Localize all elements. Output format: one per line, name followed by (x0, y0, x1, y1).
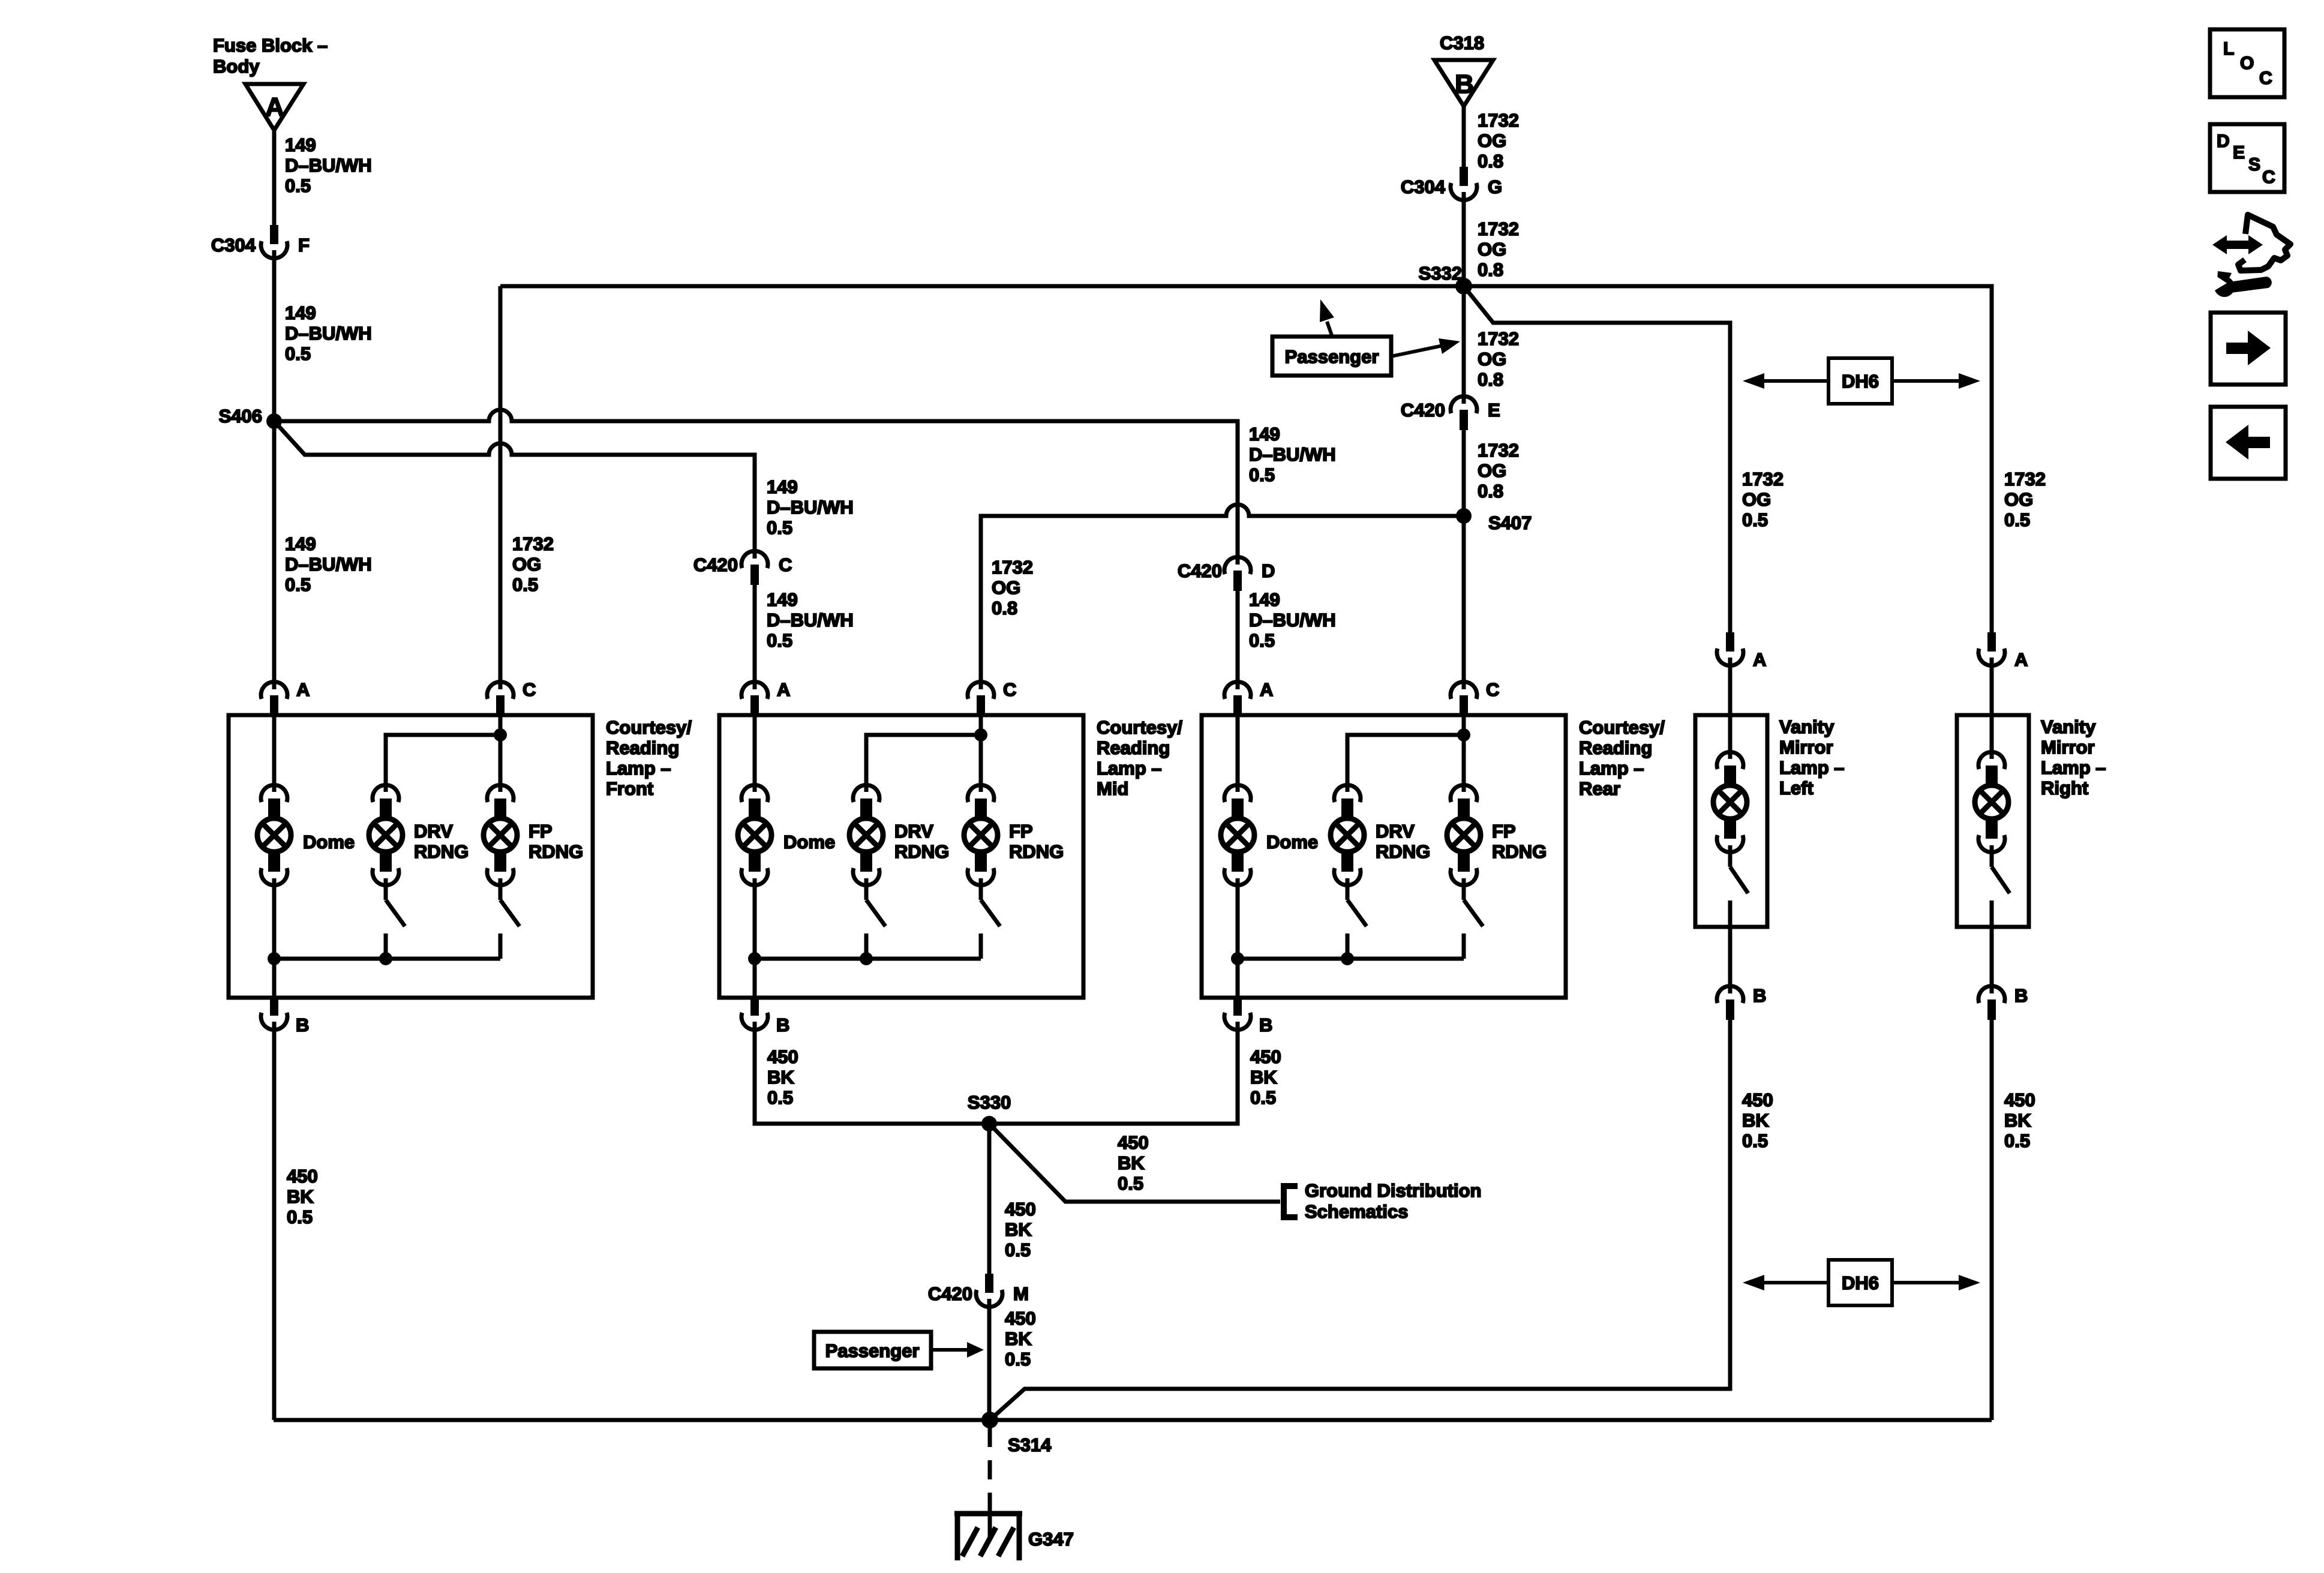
lamp FP RDNG (front) (484, 785, 583, 885)
ground G347 (954, 1506, 1074, 1560)
svg-text:BK: BK (1005, 1219, 1032, 1240)
wire 1732 OG: S407 left to mid lamp pin C (hops wire at x=2063) (981, 505, 1464, 680)
svg-text:A: A (2014, 649, 2028, 670)
svg-text:BK: BK (287, 1186, 314, 1207)
svg-text:Passenger: Passenger (1285, 346, 1379, 367)
connector pin B (rear lamp) (1224, 996, 1272, 1035)
svg-text:Lamp –: Lamp – (1779, 757, 1845, 778)
lamp: vanity mirror Left (1713, 752, 1747, 852)
svg-text:A: A (1753, 649, 1766, 670)
switch: FP reading lamp (981, 886, 1000, 959)
svg-text:F: F (298, 235, 310, 256)
svg-text:D–BU/WH: D–BU/WH (285, 155, 372, 176)
wire: box to pin B (1990, 927, 1994, 986)
svg-text:O: O (2240, 53, 2254, 73)
svg-text:450: 450 (1118, 1132, 1149, 1153)
svg-text:1732: 1732 (1478, 218, 1519, 239)
svg-text:Lamp –: Lamp – (1097, 758, 1162, 779)
wire: box to pin B (1728, 927, 1733, 986)
connector pin C (front lamp) (487, 679, 536, 716)
connector C420 pin M (928, 1274, 1029, 1308)
svg-text:0.5: 0.5 (1742, 509, 1768, 530)
wire label 450 BK 0.5 (1118, 1132, 1149, 1194)
vanity mirror lamp box Left (1695, 715, 1767, 927)
wire: internal link to DRV lamp (866, 735, 981, 784)
wire: internal ground bus (755, 957, 981, 961)
svg-text:D–BU/WH: D–BU/WH (767, 610, 854, 631)
harness reference DH6 (upper) (1743, 358, 1980, 404)
wire label 1732 OG 0.8 (1478, 328, 1519, 390)
svg-text:DH6: DH6 (1842, 371, 1879, 392)
lamp DRV RDNG (rear) (1331, 785, 1430, 885)
wire: pin A to dome lamp (1236, 715, 1240, 784)
svg-text:A: A (1260, 679, 1273, 700)
wire: dome lamp to ground bus (1236, 886, 1240, 959)
svg-text:OG: OG (2004, 489, 2033, 510)
label Vanity Mirror Lamp - Right (2041, 716, 2106, 798)
wire: pin C to internal node (979, 715, 983, 735)
lamp FP RDNG (mid) (964, 785, 1064, 885)
svg-text:C420: C420 (693, 554, 738, 575)
wire label 450 BK 0.5 (1005, 1199, 1036, 1260)
node: DRV/ground junction (860, 952, 873, 965)
svg-text:S332: S332 (1419, 263, 1462, 284)
courtesy/reading lamp box mid (719, 715, 1083, 998)
label Courtesy/Reading Lamp - Rear (1579, 717, 1665, 799)
wire label 1732 OG 0.8 (992, 557, 1033, 619)
callout box Passenger (lower) (814, 1332, 931, 1368)
wire 1732 OG: long bus from x=834 through S332 to right vanity drop (500, 286, 1992, 632)
svg-text:149: 149 (1249, 589, 1280, 610)
svg-text:D: D (1262, 560, 1275, 581)
lamp Dome (rear) (1221, 785, 1318, 885)
svg-text:G: G (1488, 176, 1502, 197)
wire 1732 OG: C304 G to splice S332 (1462, 199, 1466, 286)
wire: pin A into vanity lamp box (1990, 666, 1994, 752)
svg-text:C: C (779, 554, 792, 575)
switch: vanity lamp (1730, 853, 1748, 927)
switch: vanity lamp (1992, 853, 2010, 927)
svg-text:A: A (265, 92, 284, 122)
svg-text:C318: C318 (1440, 32, 1484, 53)
svg-text:D–BU/WH: D–BU/WH (1249, 444, 1336, 465)
svg-text:E: E (1488, 400, 1500, 421)
svg-text:0.8: 0.8 (1478, 151, 1503, 172)
wire: node to FP lamp (499, 735, 503, 784)
svg-text:149: 149 (285, 533, 316, 554)
svg-text:B: B (776, 1014, 789, 1035)
svg-text:FP: FP (529, 821, 553, 842)
wire 149 D-BU/WH: S406 down to front lamp pin A (272, 421, 277, 680)
wire label 1732 OG 0.8 (1478, 110, 1519, 172)
wire label 149 D-BU/WH 0.5 (above C420 D) (1249, 424, 1336, 485)
wire label 149 D-BU/WH 0.5 (below C420 D) (1249, 589, 1336, 651)
wire label 149 D-BU/WH 0.5 (285, 533, 372, 595)
svg-text:C: C (1003, 679, 1016, 700)
switch: DRV reading lamp (386, 886, 405, 959)
svg-text:C: C (2262, 167, 2275, 187)
svg-text:Mirror: Mirror (2041, 737, 2095, 758)
svg-text:RDNG: RDNG (1009, 841, 1064, 862)
svg-text:DRV: DRV (414, 821, 453, 842)
lamp DRV RDNG (front) (369, 785, 469, 885)
wire 1732 OG: S332 to left vanity drop (1464, 286, 1730, 632)
svg-text:Left: Left (1779, 778, 1813, 798)
connector C420 pin E (1401, 395, 1500, 430)
svg-text:D–BU/WH: D–BU/WH (1249, 610, 1336, 631)
lamp: vanity mirror Right (1975, 752, 2008, 852)
svg-text:OG: OG (1478, 349, 1506, 370)
wire label 450 BK 0.5 (right vanity) (2004, 1089, 2035, 1151)
wire: bus down to pin B (753, 959, 757, 998)
svg-text:149: 149 (1249, 424, 1280, 445)
label Courtesy/Reading Lamp - Front (606, 717, 692, 799)
svg-text:1732: 1732 (1478, 328, 1519, 349)
wire label 1732 OG 0.8 (1478, 440, 1519, 502)
wire: bus down to pin B (272, 959, 277, 998)
svg-text:B: B (1753, 985, 1766, 1006)
wire label 450 BK 0.5 (mid) (767, 1046, 798, 1108)
wire label 149 D-BU/WH 0.5 (above C420 C) (767, 476, 854, 538)
wire 149 D-BU/WH: C420 D to rear lamp pin A (1236, 591, 1240, 680)
wire 1732 OG: C318 to C304 G (1462, 104, 1466, 167)
switch: DRV reading lamp (1347, 886, 1367, 959)
svg-text:149: 149 (285, 302, 316, 323)
svg-text:Vanity: Vanity (1779, 716, 1834, 737)
connector pin B (vanity Right) (1978, 984, 2028, 1020)
svg-text:C: C (2259, 68, 2272, 88)
wire: pin C to internal node (1462, 715, 1466, 735)
callout arrow to S332 bus (1320, 299, 1334, 337)
svg-text:0.5: 0.5 (1118, 1173, 1143, 1194)
wire: bus down to pin B (1236, 959, 1240, 998)
svg-text:450: 450 (1005, 1199, 1036, 1220)
svg-text:DH6: DH6 (1842, 1272, 1879, 1293)
connector C304 pin G (1401, 167, 1502, 201)
switch: FP reading lamp (1464, 886, 1483, 959)
wire 149 D-BU/WH: C304 F to splice S406 (272, 257, 277, 421)
svg-text:0.8: 0.8 (992, 598, 1017, 619)
svg-text:C304: C304 (211, 235, 256, 256)
svg-text:BK: BK (767, 1067, 794, 1088)
svg-text:0.5: 0.5 (2004, 509, 2030, 530)
callout arrow to 1732 OG wire (1391, 338, 1460, 356)
svg-text:149: 149 (767, 476, 798, 497)
wire 1732 OG: S332 to C420 E (1462, 286, 1466, 395)
wire: internal link to DRV lamp (1347, 735, 1464, 784)
node: reading lamp feed junction (494, 728, 507, 742)
svg-text:C420: C420 (1401, 400, 1445, 421)
node: reading lamp feed junction (974, 728, 987, 742)
wire 450 BK: vanity lamp B down (1728, 1019, 1733, 1389)
legend icon LOC (2210, 29, 2284, 97)
wire label 450 BK 0.5 (1005, 1308, 1036, 1370)
svg-text:OG: OG (992, 577, 1020, 598)
wire label 450 BK 0.5 (rear) (1250, 1046, 1281, 1108)
legend icon adjust (hand with wrench) (2211, 215, 2290, 297)
svg-text:S330: S330 (968, 1092, 1011, 1113)
svg-text:S314: S314 (1008, 1434, 1052, 1455)
svg-text:C420: C420 (1178, 560, 1222, 581)
svg-text:Reading: Reading (1097, 737, 1170, 758)
wire 149 D-BU/WH: C420 C to mid lamp pin A (753, 585, 757, 680)
harness reference DH6 (lower) (1743, 1260, 1980, 1305)
svg-text:A: A (777, 679, 790, 700)
wire 149 D-BU/WH: fuse block A to C304 F (272, 128, 277, 225)
wire: internal ground bus (274, 957, 500, 961)
splice S314 (981, 1412, 1052, 1455)
svg-text:0.8: 0.8 (1478, 259, 1503, 280)
svg-text:S407: S407 (1488, 512, 1532, 533)
svg-text:Reading: Reading (606, 737, 679, 758)
connector pin B (front lamp) (261, 996, 309, 1035)
svg-text:S: S (2248, 155, 2260, 175)
svg-text:OG: OG (512, 554, 541, 575)
svg-text:0.8: 0.8 (1478, 481, 1503, 502)
svg-text:450: 450 (287, 1166, 318, 1187)
splice S330 (968, 1092, 1011, 1131)
svg-text:450: 450 (1250, 1046, 1281, 1067)
svg-text:0.5: 0.5 (285, 574, 311, 595)
wire: node to FP lamp (1462, 735, 1466, 784)
wire label 1732 OG 0.8 (1478, 218, 1519, 280)
svg-text:Lamp –: Lamp – (2041, 757, 2106, 778)
svg-text:DRV: DRV (894, 821, 933, 842)
svg-text:RDNG: RDNG (529, 841, 583, 862)
callout box Passenger (upper) (1272, 337, 1391, 376)
svg-text:DRV: DRV (1376, 821, 1415, 842)
vanity mirror lamp box Right (1957, 715, 2029, 927)
wire label 450 BK 0.5 (287, 1166, 318, 1227)
lamp Dome (front) (257, 785, 355, 885)
svg-text:D–BU/WH: D–BU/WH (285, 323, 372, 344)
node: reading lamp feed junction (1457, 728, 1470, 742)
dimmer feed connector C318 (triangle B) (1434, 32, 1493, 106)
svg-text:Fuse Block –: Fuse Block – (213, 35, 328, 56)
splice S332 (1419, 263, 1472, 295)
wire: node to FP lamp (979, 735, 983, 784)
svg-text:E: E (2233, 143, 2245, 163)
svg-text:149: 149 (767, 589, 798, 610)
wire: internal ground bus (1238, 957, 1464, 961)
svg-text:C: C (1486, 679, 1499, 700)
svg-text:0.5: 0.5 (1742, 1130, 1768, 1151)
wire: S314 to ground G347 (dashed) (988, 1428, 992, 1512)
svg-text:RDNG: RDNG (1376, 841, 1430, 862)
legend icon back arrow (2211, 407, 2286, 479)
fuse block connector A (Fuse Block - Body) (213, 35, 328, 130)
wire: dome lamp to ground bus (753, 886, 757, 959)
svg-text:OG: OG (1478, 130, 1506, 151)
svg-text:0.5: 0.5 (1250, 1087, 1276, 1108)
node: DRV/ground junction (1341, 952, 1354, 965)
connector pin A (mid lamp) (741, 679, 790, 716)
svg-text:Ground Distribution: Ground Distribution (1305, 1180, 1481, 1201)
connector pin A (vanity Right) (1978, 632, 2028, 670)
legend icon forward arrow (2211, 313, 2286, 385)
svg-text:L: L (2223, 39, 2234, 59)
switch: FP reading lamp (500, 886, 520, 959)
svg-text:0.5: 0.5 (2004, 1130, 2030, 1151)
svg-text:BK: BK (2004, 1110, 2031, 1131)
connector pin B (mid lamp) (741, 996, 789, 1035)
svg-text:Mirror: Mirror (1779, 737, 1833, 758)
wire 450 BK: S330 to C420 M (987, 1124, 992, 1274)
svg-text:Front: Front (606, 778, 653, 799)
wire label 450 BK 0.5 (left vanity) (1742, 1089, 1773, 1151)
wire 450 BK: S330 to ground distribution schematics (989, 1124, 1280, 1202)
svg-text:1732: 1732 (2004, 469, 2046, 490)
wire 149 D-BU/WH: S406 to C420 D (upper branch, hops wire at x=834) (274, 410, 1238, 556)
svg-text:OG: OG (1478, 239, 1506, 260)
svg-text:A: A (296, 679, 310, 700)
svg-text:450: 450 (2004, 1089, 2035, 1110)
svg-text:D–BU/WH: D–BU/WH (767, 497, 854, 518)
svg-text:0.5: 0.5 (287, 1206, 313, 1227)
wire 450 BK: vanity lamp B down (1990, 1019, 1994, 1420)
connector pin B (vanity Left) (1717, 984, 1766, 1020)
svg-text:Mid: Mid (1097, 778, 1128, 799)
node: dome/ground junction (268, 952, 281, 965)
connector C420 pin C (693, 550, 792, 585)
svg-text:FP: FP (1492, 821, 1516, 842)
svg-text:D–BU/WH: D–BU/WH (285, 554, 372, 575)
svg-text:OG: OG (1742, 489, 1771, 510)
svg-text:Reading: Reading (1579, 737, 1652, 758)
connector pin C (mid lamp) (968, 679, 1016, 716)
svg-text:0.5: 0.5 (512, 574, 538, 595)
svg-text:0.5: 0.5 (1005, 1239, 1031, 1260)
connector C304 pin F (211, 225, 310, 259)
lamp FP RDNG (rear) (1447, 785, 1547, 885)
svg-text:1732: 1732 (1478, 440, 1519, 461)
node: dome/ground junction (748, 952, 761, 965)
svg-text:S406: S406 (219, 406, 262, 427)
svg-text:0.8: 0.8 (1478, 369, 1503, 390)
svg-text:Passenger: Passenger (825, 1340, 920, 1361)
svg-text:Dome: Dome (303, 831, 355, 852)
splice S406 (219, 406, 282, 429)
svg-text:0.5: 0.5 (767, 1087, 793, 1108)
lamp DRV RDNG (mid) (849, 785, 949, 885)
wire 149 D-BU/WH: S406 to C420 C (lower branch, hops wire at x=834) (274, 421, 755, 550)
svg-text:450: 450 (1742, 1089, 1773, 1110)
connector pin A (rear lamp) (1224, 679, 1273, 716)
wire 1732 OG: S407 down to rear lamp pin C (1462, 516, 1466, 680)
svg-text:BK: BK (1742, 1110, 1769, 1131)
callout arrow to 450 BK wire (931, 1342, 984, 1358)
svg-text:0.5: 0.5 (1005, 1349, 1031, 1370)
wire: pin A to dome lamp (272, 715, 277, 784)
wire label 149 D-BU/WH 0.5 (285, 302, 372, 364)
wire 450 BK: front lamp B to ground bus (272, 1029, 277, 1420)
svg-text:0.5: 0.5 (1249, 630, 1275, 651)
svg-text:G347: G347 (1028, 1529, 1074, 1550)
wire 1732 OG: drop from bus corner x=834 to front lamp pin C (499, 286, 503, 680)
svg-text:1732: 1732 (992, 557, 1033, 578)
wire label 1732 OG 0.5 (left vanity) (1742, 469, 1783, 530)
svg-text:Dome: Dome (783, 831, 835, 852)
svg-text:M: M (1013, 1283, 1029, 1304)
svg-text:1732: 1732 (1742, 469, 1783, 490)
svg-text:Courtesy/: Courtesy/ (1579, 717, 1665, 738)
connector pin C (rear lamp) (1451, 679, 1499, 716)
svg-text:B: B (2014, 985, 2028, 1006)
svg-text:Schematics: Schematics (1305, 1201, 1408, 1222)
svg-text:BK: BK (1005, 1328, 1032, 1349)
svg-text:C: C (523, 679, 536, 700)
wire label 149 D-BU/WH 0.5 (285, 134, 372, 196)
switch: DRV reading lamp (866, 886, 885, 959)
node: DRV/ground junction (379, 952, 392, 965)
svg-text:C420: C420 (928, 1283, 972, 1304)
svg-text:Body: Body (213, 56, 260, 77)
wire label 1732 OG 0.5 (512, 533, 554, 595)
wire 450 BK: left vanity branch into S314 (990, 1020, 1730, 1420)
splice S407 (1456, 508, 1532, 533)
connector C420 pin D (1178, 556, 1275, 591)
connector pin A (front lamp) (261, 679, 310, 716)
svg-text:0.5: 0.5 (767, 517, 792, 538)
svg-text:Courtesy/: Courtesy/ (1097, 717, 1182, 738)
svg-text:RDNG: RDNG (1492, 841, 1547, 862)
svg-text:1732: 1732 (512, 533, 554, 554)
svg-text:Dome: Dome (1266, 831, 1318, 852)
svg-text:450: 450 (767, 1046, 798, 1067)
svg-text:0.5: 0.5 (285, 343, 311, 364)
legend icon DESC (2210, 124, 2284, 192)
wire: pin A into vanity lamp box (1728, 666, 1733, 752)
wire 450 BK: mid lamp B to S330 (755, 1029, 1238, 1124)
connector pin A (vanity Left) (1717, 632, 1766, 670)
svg-text:C304: C304 (1401, 176, 1446, 197)
svg-text:Lamp –: Lamp – (606, 758, 671, 779)
label Courtesy/Reading Lamp - Mid (1097, 717, 1182, 799)
svg-text:450: 450 (1005, 1308, 1036, 1329)
wire 450 BK: main ground bus through S314 (274, 1418, 1992, 1422)
svg-text:BK: BK (1250, 1067, 1277, 1088)
svg-text:FP: FP (1009, 821, 1033, 842)
label Vanity Mirror Lamp - Left (1779, 716, 1845, 798)
svg-text:D: D (2217, 131, 2230, 151)
courtesy/reading lamp box rear (1202, 715, 1566, 998)
svg-text:Rear: Rear (1579, 778, 1620, 799)
svg-text:B: B (296, 1014, 309, 1035)
wire 1732 OG: C420 E to splice S407 (1462, 430, 1466, 516)
svg-text:OG: OG (1478, 460, 1506, 481)
svg-text:BK: BK (1118, 1152, 1145, 1173)
wire label 1732 OG 0.5 (right vanity) (2004, 469, 2046, 530)
wire: internal link to DRV lamp (386, 735, 500, 784)
svg-text:0.5: 0.5 (767, 630, 792, 651)
svg-text:Courtesy/: Courtesy/ (606, 717, 692, 738)
svg-text:0.5: 0.5 (1249, 464, 1275, 485)
bracket: ground distribution schematics reference (1284, 1180, 1481, 1222)
svg-text:B: B (1259, 1014, 1272, 1035)
courtesy/reading lamp box front (229, 715, 593, 998)
svg-text:1732: 1732 (1478, 110, 1519, 131)
wire 450 BK: C420 M to S314 (987, 1307, 992, 1420)
svg-text:Vanity: Vanity (2041, 716, 2096, 737)
svg-text:Right: Right (2041, 778, 2088, 798)
wire: dome lamp to ground bus (272, 886, 277, 959)
svg-text:Lamp –: Lamp – (1579, 758, 1644, 779)
wire: pin A to dome lamp (753, 715, 757, 784)
wire label 149 D-BU/WH 0.5 (below C420 C) (767, 589, 854, 651)
svg-text:149: 149 (285, 134, 316, 155)
svg-text:RDNG: RDNG (414, 841, 469, 862)
svg-text:RDNG: RDNG (894, 841, 949, 862)
